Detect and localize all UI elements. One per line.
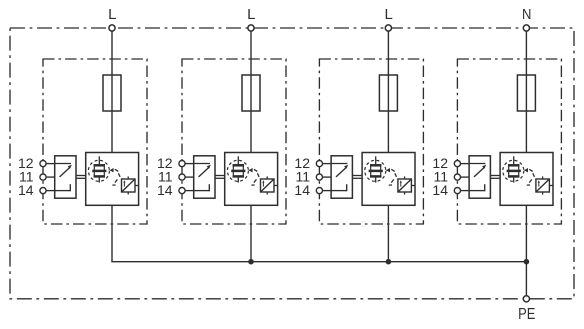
disconnect indicator arrow inside varistor (module 2) xyxy=(262,180,264,186)
thermo-dynamic control (dashed circle) module 1 xyxy=(88,160,109,181)
node terminal 12 circle (module 4) xyxy=(454,161,460,167)
junction dot on PE bus xyxy=(248,259,254,265)
svg-text:14: 14 xyxy=(18,182,34,198)
wire: contact terminal 12 lead (module 4) xyxy=(460,163,469,165)
varistor RV2 xyxy=(261,176,278,194)
action arrow (monitoring) module 2 xyxy=(249,168,253,172)
wire: module 1 down to PE bus xyxy=(111,205,113,261)
node terminal 14 circle (module 2) xyxy=(179,188,185,194)
svg-text:14: 14 xyxy=(294,182,310,198)
remote-signalling contact box S2 xyxy=(194,156,215,198)
disconnector/fuse F1 xyxy=(103,75,121,111)
changeover contact (module 2) xyxy=(194,164,211,192)
node L terminal circle (module 3) xyxy=(385,25,391,31)
svg-text:L: L xyxy=(247,6,255,23)
action arrow (monitoring) module 3 xyxy=(386,168,390,172)
wire: contact terminal 12 lead (module 1) xyxy=(46,163,55,165)
wire: L terminal down to disconnector (module 1) xyxy=(111,31,113,153)
thermal disconnect element (module 4) xyxy=(507,156,521,182)
wire: contact terminal 14 lead (module 1) xyxy=(46,190,55,192)
node terminal 11 circle (module 3) xyxy=(316,174,322,180)
node terminal 11 circle (module 4) xyxy=(454,174,460,180)
mechanical linkage (module 2) xyxy=(215,176,225,179)
node L terminal circle (module 2) xyxy=(248,25,254,31)
wire: L terminal down to disconnector (module 2) xyxy=(250,31,252,153)
PE bus wire xyxy=(111,261,526,263)
node L terminal circle (module 1) xyxy=(109,25,115,31)
wire: L terminal down to disconnector (module 3) xyxy=(387,31,389,153)
dashed action line to varistor (module 2) xyxy=(251,169,259,185)
changeover contact (module 3) xyxy=(331,164,348,192)
mechanical linkage (module 3) xyxy=(352,176,362,179)
wire: contact terminal 14 lead (module 3) xyxy=(322,190,331,192)
node terminal 12 circle (module 1) xyxy=(40,161,46,167)
wire: module 2 down to PE bus xyxy=(250,205,252,261)
wire: contact terminal 11 lead (module 1) xyxy=(46,176,55,178)
varistor module box U1 xyxy=(86,153,139,206)
disconnect indicator arrow inside varistor (module 3) xyxy=(400,180,402,186)
node N terminal circle (module 4) xyxy=(523,25,529,31)
dashed action line to varistor (module 3) xyxy=(389,169,397,185)
junction dot on PE bus xyxy=(524,259,530,265)
dashed action line to varistor (module 4) xyxy=(527,169,535,185)
action arrow (monitoring) module 4 xyxy=(524,168,528,172)
node terminal 12 circle (module 3) xyxy=(316,161,322,167)
svg-text:14: 14 xyxy=(157,182,173,198)
varistor RV1 xyxy=(122,176,139,194)
varistor module box U2 xyxy=(225,153,278,206)
node terminal 12 circle (module 2) xyxy=(179,161,185,167)
enclosure boundary (dash-dot frame) xyxy=(10,28,574,299)
varistor RV4 xyxy=(536,176,553,194)
svg-text:14: 14 xyxy=(432,182,448,198)
action arrow (monitoring) module 1 xyxy=(110,168,114,172)
svg-text:L: L xyxy=(385,6,393,23)
module 3 boundary (dash-dot box) xyxy=(319,59,423,224)
wire: contact terminal 11 lead (module 4) xyxy=(460,176,469,178)
varistor module box U3 xyxy=(362,153,415,206)
wire: module 4 down to PE bus xyxy=(525,205,527,261)
svg-text:N: N xyxy=(522,6,531,23)
thermo-dynamic control (dashed circle) module 2 xyxy=(227,160,248,181)
node terminal 14 circle (module 1) xyxy=(40,188,46,194)
remote-signalling contact box S1 xyxy=(55,156,76,198)
changeover contact (module 4) xyxy=(469,164,486,192)
disconnect indicator arrow inside varistor (module 1) xyxy=(123,180,125,186)
mechanical linkage (module 4) xyxy=(490,176,500,179)
thermo-dynamic control (dashed circle) module 4 xyxy=(503,160,524,181)
disconnector/fuse F4 xyxy=(517,75,535,111)
module 2 boundary (dash-dot box) xyxy=(182,59,286,224)
wire: contact terminal 12 lead (module 3) xyxy=(322,163,331,165)
remote-signalling contact box S4 xyxy=(469,156,490,198)
junction dot on PE bus xyxy=(386,259,392,265)
wire: contact terminal 14 lead (module 4) xyxy=(460,190,469,192)
wire: PE bus down to PE terminal xyxy=(525,262,527,296)
varistor module box U4 xyxy=(500,153,553,206)
thermal disconnect element (module 1) xyxy=(92,156,106,182)
varistor RV3 xyxy=(398,176,415,194)
wire: N terminal down to disconnector (module 4) xyxy=(525,31,527,153)
svg-text:L: L xyxy=(108,6,116,23)
thermal disconnect element (module 2) xyxy=(231,156,245,182)
wire: contact terminal 11 lead (module 2) xyxy=(185,176,194,178)
node terminal 11 circle (module 1) xyxy=(40,174,46,180)
wire: module 3 down to PE bus xyxy=(387,205,389,261)
module 1 boundary (dash-dot box) xyxy=(43,59,147,224)
thermal disconnect element (module 3) xyxy=(369,156,383,182)
node PE terminal circle xyxy=(523,296,529,302)
disconnector/fuse F2 xyxy=(242,75,260,111)
module 4 boundary (dash-dot box) xyxy=(457,59,561,224)
node terminal 11 circle (module 2) xyxy=(179,174,185,180)
thermo-dynamic control (dashed circle) module 3 xyxy=(365,160,386,181)
disconnect indicator arrow inside varistor (module 4) xyxy=(538,180,540,186)
wire: contact terminal 11 lead (module 3) xyxy=(322,176,331,178)
remote-signalling contact box S3 xyxy=(331,156,352,198)
node terminal 14 circle (module 4) xyxy=(454,188,460,194)
dashed action line to varistor (module 1) xyxy=(112,169,120,185)
mechanical linkage (module 1) xyxy=(76,176,86,179)
changeover contact (module 1) xyxy=(55,164,72,192)
wire: contact terminal 12 lead (module 2) xyxy=(185,163,194,165)
node terminal 14 circle (module 3) xyxy=(316,188,322,194)
disconnector/fuse F3 xyxy=(379,75,397,111)
wire: contact terminal 14 lead (module 2) xyxy=(185,190,194,192)
svg-text:PE: PE xyxy=(518,306,535,323)
